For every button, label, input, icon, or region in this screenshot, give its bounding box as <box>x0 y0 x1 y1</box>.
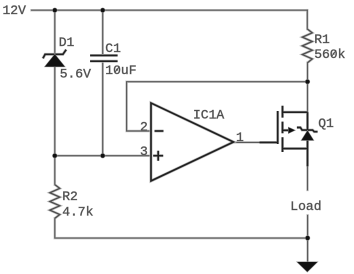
svg-text:10uF: 10uF <box>105 63 136 78</box>
svg-text:C1: C1 <box>105 41 121 56</box>
svg-text:Load: Load <box>290 199 321 214</box>
svg-text:2: 2 <box>140 120 148 135</box>
svg-text:4.7k: 4.7k <box>62 205 93 220</box>
svg-text:D1: D1 <box>59 35 75 50</box>
svg-text:R1: R1 <box>314 32 330 47</box>
svg-text:560k: 560k <box>314 47 345 62</box>
svg-text:12V: 12V <box>3 3 27 18</box>
svg-text:Q1: Q1 <box>318 116 334 131</box>
svg-text:3: 3 <box>140 144 148 159</box>
svg-text:5.6V: 5.6V <box>60 67 91 82</box>
svg-text:R2: R2 <box>62 189 78 204</box>
svg-text:1: 1 <box>236 130 244 145</box>
svg-text:IC1A: IC1A <box>193 108 224 123</box>
